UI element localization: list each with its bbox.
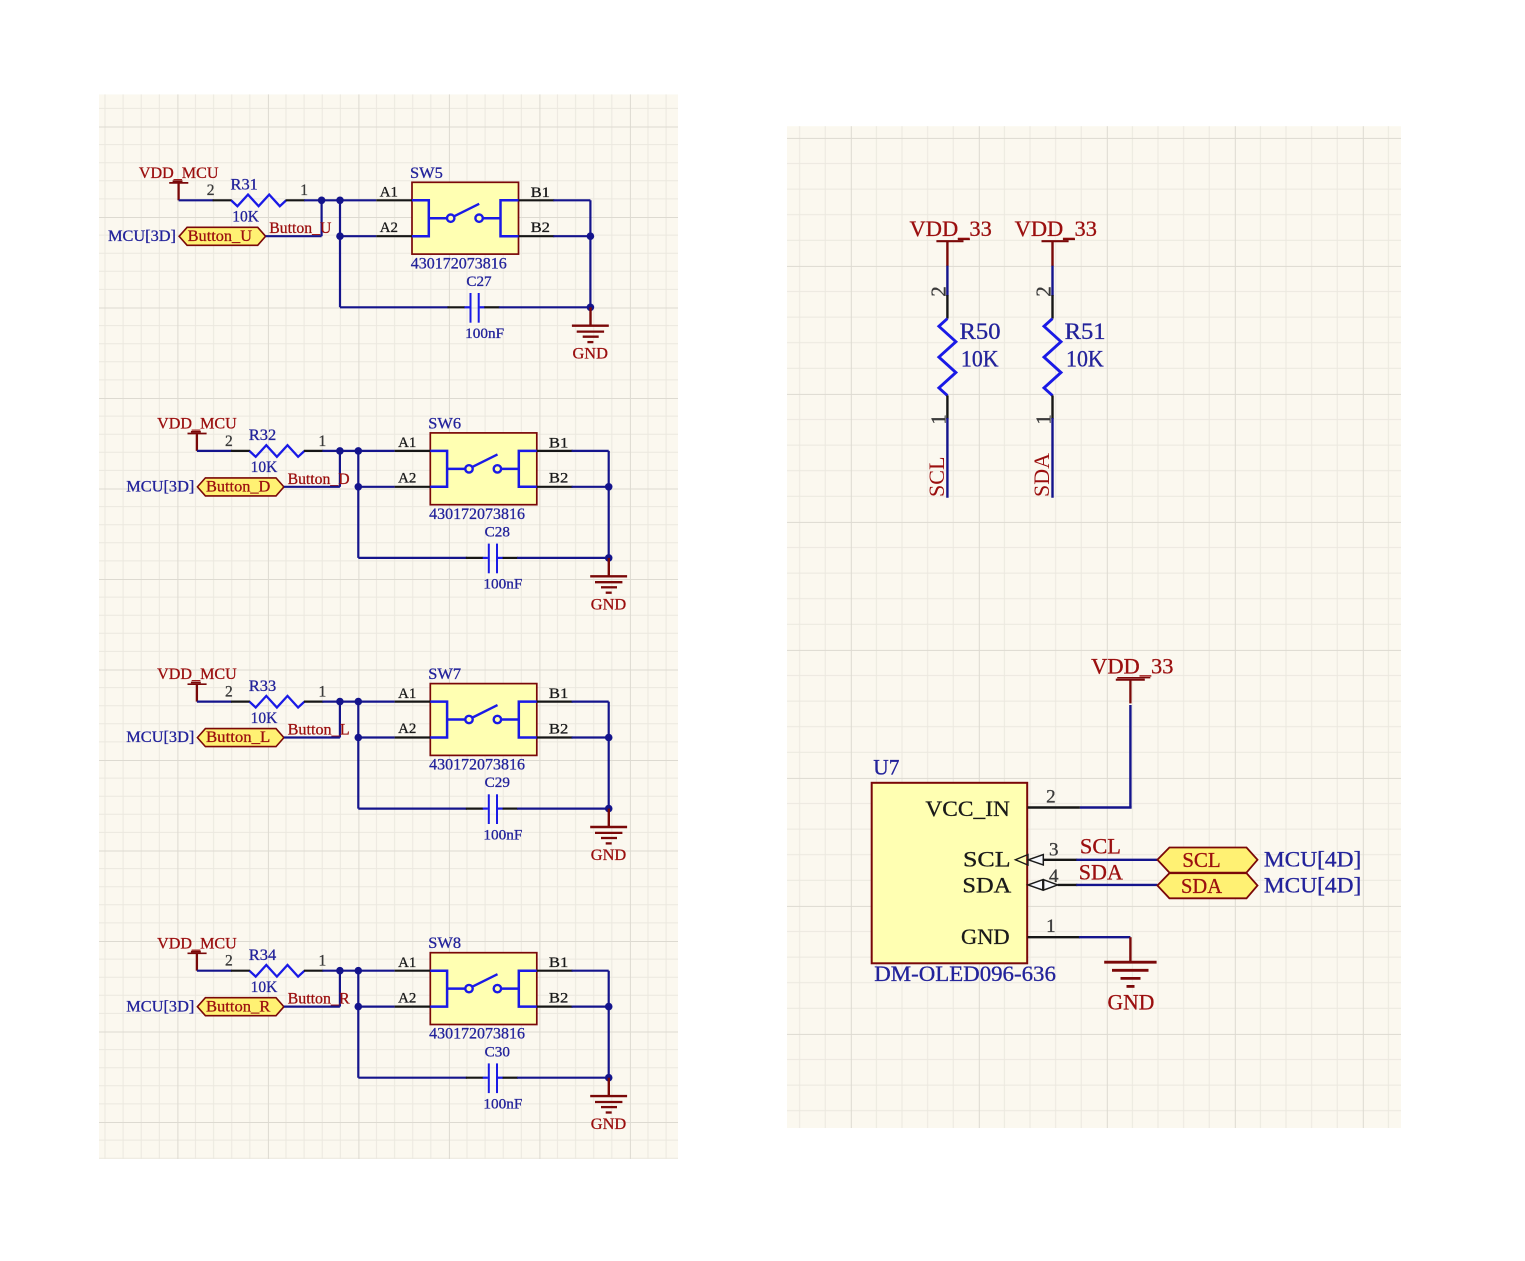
- net label SCL (rotated): [924, 457, 949, 498]
- wire A2: [358, 1005, 394, 1007]
- svg-text:2: 2: [225, 433, 233, 450]
- wire resistor to switch row: [322, 450, 359, 452]
- wire VDD_33 to resistor: [946, 266, 948, 296]
- svg-text:A1: A1: [398, 955, 416, 971]
- svg-text:U7: U7: [873, 754, 899, 779]
- svg-text:C29: C29: [485, 775, 510, 791]
- wire A1: [358, 450, 394, 452]
- svg-text:SW6: SW6: [428, 415, 461, 432]
- ground (U7): [1104, 937, 1156, 1014]
- svg-text:430172073816: 430172073816: [429, 757, 525, 774]
- wire node down to capacitor row: [357, 702, 359, 809]
- svg-text:Button_R: Button_R: [206, 998, 271, 1015]
- svg-text:SDA: SDA: [1079, 860, 1123, 885]
- svg-text:100nF: 100nF: [483, 577, 522, 593]
- resistor R50 10K: [926, 286, 1000, 425]
- svg-text:100nF: 100nF: [465, 326, 504, 342]
- svg-text:10K: 10K: [251, 979, 278, 996]
- svg-text:10K: 10K: [251, 710, 278, 727]
- port Button_U: [179, 227, 266, 245]
- junction (gnd node): [587, 304, 595, 312]
- wire B1 to gnd rail: [572, 971, 609, 1078]
- svg-text:2: 2: [926, 286, 950, 297]
- svg-text:MCU[3D]: MCU[3D]: [108, 228, 176, 245]
- left schematic sheet: [99, 94, 678, 1159]
- junction (A1 node): [355, 447, 363, 455]
- wire cap row left: [340, 306, 449, 308]
- svg-text:VCC_IN: VCC_IN: [925, 796, 1010, 821]
- svg-text:C30: C30: [485, 1044, 510, 1060]
- power flag VDD_MCU (SW5 circuit): [139, 165, 219, 200]
- wire node down to capacitor row: [357, 451, 359, 558]
- svg-text:R32: R32: [249, 427, 276, 444]
- svg-text:10K: 10K: [232, 209, 259, 226]
- svg-text:B2: B2: [549, 471, 568, 487]
- wire VDD to resistor: [197, 700, 232, 702]
- svg-text:B1: B1: [549, 435, 568, 451]
- wire B2 to gnd rail: [553, 235, 590, 237]
- svg-text:SCL: SCL: [1080, 834, 1121, 859]
- svg-text:GND: GND: [1108, 990, 1155, 1015]
- wire VDD_33 to pin 2: [1080, 705, 1132, 808]
- svg-text:10K: 10K: [251, 459, 278, 476]
- junction (pin1 node): [318, 197, 326, 205]
- wire A1: [340, 199, 376, 201]
- junction (B2 node): [605, 734, 613, 742]
- power flag VDD_33 (U7): [1091, 654, 1173, 704]
- svg-text:C27: C27: [466, 274, 492, 290]
- svg-text:MCU[4D]: MCU[4D]: [1264, 847, 1361, 872]
- wire B1 to gnd rail: [572, 702, 609, 809]
- wire cap row left: [358, 1077, 467, 1079]
- wire B2 to gnd rail: [572, 1005, 609, 1007]
- svg-text:SCL: SCL: [924, 457, 949, 498]
- switch SW5 430172073816: [376, 165, 554, 272]
- svg-text:GND: GND: [591, 847, 626, 864]
- svg-text:GND: GND: [573, 346, 608, 363]
- power flag VDD_MCU (SW6 circuit): [157, 416, 237, 451]
- svg-text:4: 4: [1049, 866, 1059, 887]
- net label Button_L: [288, 722, 350, 739]
- switch SW8 430172073816: [395, 935, 573, 1042]
- sheet entry label MCU[4D] (SCL): [1264, 847, 1361, 872]
- junction (gnd node): [605, 554, 613, 562]
- wire B1 to gnd rail: [553, 200, 590, 307]
- net label SDA: [1079, 860, 1123, 885]
- svg-text:Button_R: Button_R: [288, 991, 350, 1008]
- wire port to node: [266, 235, 322, 237]
- power flag VDD_MCU (SW8 circuit): [157, 935, 237, 970]
- switch SW7 430172073816: [395, 666, 573, 774]
- junction (A2 node): [355, 1003, 363, 1011]
- port Button_D: [197, 478, 284, 496]
- pin 2 VCC_IN: [1028, 787, 1080, 808]
- svg-text:SW8: SW8: [428, 935, 461, 952]
- wire A2: [358, 736, 394, 738]
- svg-text:A1: A1: [398, 435, 416, 451]
- wire A1: [358, 700, 394, 702]
- svg-text:1: 1: [300, 182, 308, 199]
- svg-text:DM-OLED096-636: DM-OLED096-636: [874, 961, 1056, 986]
- svg-text:MCU[3D]: MCU[3D]: [126, 998, 194, 1015]
- sheet entry label MCU[4D] (SDA): [1264, 872, 1361, 897]
- svg-text:Button_D: Button_D: [206, 479, 270, 496]
- junction (gnd node): [605, 805, 613, 813]
- junction (A2 node): [355, 483, 363, 491]
- net label Button_R: [288, 991, 350, 1008]
- right schematic sheet: [787, 126, 1401, 1128]
- svg-text:430172073816: 430172073816: [411, 255, 507, 272]
- sheet entry label MCU[3D]: [126, 998, 194, 1015]
- svg-text:B1: B1: [549, 955, 568, 971]
- resistor R34 10K: [225, 947, 326, 996]
- svg-text:2: 2: [1032, 286, 1056, 297]
- port SCL: [1157, 848, 1257, 873]
- svg-text:R33: R33: [249, 678, 276, 695]
- junction (pin1 node): [336, 698, 344, 706]
- wire resistor to switch row: [322, 700, 359, 702]
- svg-text:A2: A2: [398, 721, 416, 737]
- wire cap row right: [499, 306, 591, 308]
- ground: [590, 809, 627, 864]
- wire VDD to resistor: [197, 970, 232, 972]
- svg-text:Button_U: Button_U: [188, 228, 253, 245]
- svg-text:A2: A2: [398, 471, 416, 487]
- svg-text:Button_L: Button_L: [288, 722, 350, 739]
- svg-text:B2: B2: [549, 721, 568, 737]
- svg-text:B2: B2: [531, 220, 550, 236]
- wire A2: [340, 235, 376, 237]
- wire down to port row: [321, 200, 323, 236]
- net label Button_D: [288, 471, 350, 488]
- svg-text:1: 1: [319, 433, 327, 450]
- svg-text:SDA: SDA: [1181, 874, 1223, 898]
- svg-text:GND: GND: [591, 596, 626, 613]
- svg-text:VDD_MCU: VDD_MCU: [157, 416, 237, 433]
- switch SW6 430172073816: [395, 415, 573, 523]
- wire B1 to gnd rail: [572, 451, 609, 558]
- svg-text:A2: A2: [380, 220, 398, 236]
- svg-text:SDA: SDA: [962, 872, 1011, 897]
- svg-text:R51: R51: [1065, 319, 1106, 344]
- svg-text:B1: B1: [549, 686, 568, 702]
- svg-text:R31: R31: [231, 177, 258, 194]
- svg-text:2: 2: [225, 684, 233, 701]
- wire cap row left: [358, 557, 467, 559]
- wire node down to capacitor row: [357, 971, 359, 1078]
- svg-text:Button_L: Button_L: [206, 729, 270, 746]
- svg-text:SDA: SDA: [1029, 453, 1054, 497]
- svg-text:Button_D: Button_D: [288, 471, 350, 488]
- wire VDD to resistor: [197, 450, 232, 452]
- pin 3 SCL with input arrows: [1015, 840, 1077, 866]
- svg-text:3: 3: [1049, 840, 1059, 861]
- svg-text:SW7: SW7: [428, 666, 461, 683]
- junction (B2 node): [605, 1003, 613, 1011]
- power flag VDD_MCU (SW7 circuit): [157, 666, 237, 701]
- pin 1 GND: [1028, 916, 1080, 937]
- wire cap row right: [517, 1077, 609, 1079]
- junction (B2 node): [605, 483, 613, 491]
- wire A2: [358, 486, 394, 488]
- sheet entry label MCU[3D]: [126, 729, 194, 746]
- sheet entry label MCU[3D]: [126, 479, 194, 496]
- junction (A1 node): [355, 967, 363, 975]
- junction (A1 node): [355, 698, 363, 706]
- op module U7 DM-OLED096-636: [872, 754, 1056, 986]
- wire down to port row: [339, 702, 341, 738]
- wire VDD to resistor: [179, 199, 214, 201]
- svg-text:R34: R34: [249, 947, 276, 964]
- wire SCL stub: [946, 418, 948, 498]
- svg-text:VDD_MCU: VDD_MCU: [157, 666, 237, 683]
- svg-text:GND: GND: [591, 1116, 626, 1133]
- wire port to node: [284, 736, 340, 738]
- svg-text:100nF: 100nF: [483, 1096, 522, 1112]
- resistor R33 10K: [225, 678, 326, 727]
- port Button_R: [197, 998, 284, 1016]
- port Button_L: [197, 729, 284, 747]
- svg-text:C28: C28: [485, 525, 510, 541]
- svg-text:SCL: SCL: [963, 847, 1011, 872]
- junction (gnd node): [605, 1074, 613, 1082]
- wire port to node: [284, 1005, 340, 1007]
- svg-text:VDD_MCU: VDD_MCU: [157, 935, 237, 952]
- svg-text:2: 2: [1046, 787, 1056, 808]
- svg-text:1: 1: [319, 684, 327, 701]
- resistor R32 10K: [225, 427, 326, 476]
- wire node down to capacitor row: [339, 200, 341, 307]
- wire cap row left: [358, 807, 467, 809]
- wire port to node: [284, 486, 340, 488]
- svg-text:SCL: SCL: [1182, 848, 1221, 872]
- junction (A2 node): [355, 734, 363, 742]
- net label Button_U: [269, 220, 331, 237]
- svg-text:MCU[3D]: MCU[3D]: [126, 729, 194, 746]
- wire A1: [358, 970, 394, 972]
- capacitor C28 100nF: [466, 525, 523, 593]
- wire pin4 to port SDA: [1076, 884, 1157, 886]
- svg-text:10K: 10K: [961, 347, 999, 372]
- svg-text:B1: B1: [531, 185, 550, 201]
- wire B2 to gnd rail: [572, 486, 609, 488]
- capacitor C29 100nF: [466, 775, 523, 843]
- svg-text:R50: R50: [960, 319, 1001, 344]
- wire pin1 to ground: [1079, 936, 1131, 938]
- svg-text:A1: A1: [398, 686, 416, 702]
- svg-text:VDD_33: VDD_33: [1091, 654, 1173, 679]
- svg-text:2: 2: [207, 182, 215, 199]
- pin 4 SDA with bidir arrows: [1028, 866, 1077, 890]
- resistor R51 10K: [1032, 286, 1106, 425]
- svg-text:VDD_33: VDD_33: [1015, 216, 1097, 241]
- svg-text:100nF: 100nF: [483, 827, 522, 843]
- wire B2 to gnd rail: [572, 736, 609, 738]
- svg-text:A1: A1: [380, 185, 398, 201]
- svg-text:VDD_33: VDD_33: [910, 216, 992, 241]
- net label SDA (rotated): [1029, 453, 1054, 497]
- power flag VDD_33 (R50): [910, 216, 992, 266]
- wire down to port row: [339, 971, 341, 1007]
- svg-text:MCU[3D]: MCU[3D]: [126, 479, 194, 496]
- net label SCL: [1080, 834, 1121, 859]
- ground: [572, 307, 609, 362]
- sheet entry label MCU[3D]: [108, 228, 176, 245]
- junction (A2 node): [336, 232, 344, 240]
- wire resistor to switch row: [322, 970, 359, 972]
- junction (B2 node): [587, 232, 595, 240]
- svg-text:SW5: SW5: [410, 165, 443, 182]
- port SDA: [1157, 873, 1257, 898]
- wire down to port row: [339, 451, 341, 487]
- svg-text:1: 1: [1046, 916, 1056, 937]
- ground: [590, 1078, 627, 1133]
- wire pin3 to port SCL: [1076, 859, 1157, 861]
- svg-text:10K: 10K: [1066, 347, 1104, 372]
- wire cap row right: [517, 807, 609, 809]
- ground: [590, 558, 627, 613]
- svg-text:Button_U: Button_U: [269, 220, 331, 237]
- svg-text:MCU[4D]: MCU[4D]: [1264, 872, 1361, 897]
- power flag VDD_33 (R51): [1015, 216, 1097, 266]
- svg-text:1: 1: [319, 953, 327, 970]
- junction (A1 node): [336, 197, 344, 205]
- wire cap row right: [517, 557, 609, 559]
- svg-text:430172073816: 430172073816: [429, 1026, 525, 1043]
- svg-text:VDD_MCU: VDD_MCU: [139, 165, 219, 182]
- svg-text:A2: A2: [398, 990, 416, 1006]
- svg-text:430172073816: 430172073816: [429, 506, 525, 523]
- wire VDD_33 to resistor: [1051, 266, 1053, 296]
- junction (pin1 node): [336, 447, 344, 455]
- junction (pin1 node): [336, 967, 344, 975]
- svg-text:B2: B2: [549, 991, 568, 1007]
- resistor R31 10K: [207, 177, 308, 226]
- capacitor C30 100nF: [466, 1044, 523, 1112]
- wire resistor to switch row: [304, 199, 341, 201]
- svg-text:GND: GND: [961, 924, 1010, 949]
- capacitor C27 100nF: [448, 274, 505, 342]
- svg-text:2: 2: [225, 953, 233, 970]
- wire SDA stub: [1051, 418, 1053, 498]
